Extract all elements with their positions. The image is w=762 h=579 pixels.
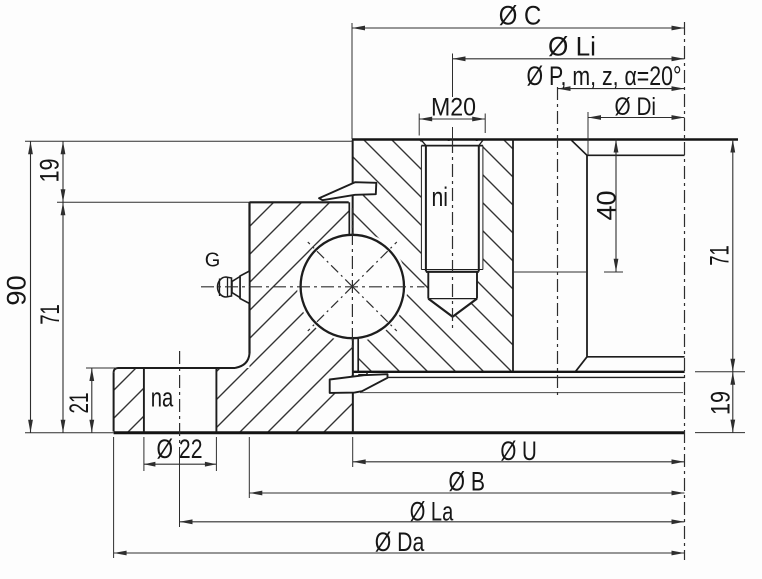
- outer ring top face: [250, 201, 349, 203]
- svg-text:Ø U: Ø U: [500, 436, 537, 466]
- outer ring fillet: [235, 354, 250, 369]
- inner ring edge below ball: [358, 339, 367, 375]
- bearing ball: [301, 235, 404, 338]
- svg-text:na: na: [151, 383, 174, 413]
- dimension Ø 22: [144, 434, 217, 471]
- dimension Ø P m z alpha=20deg: [527, 61, 685, 91]
- svg-text:ni: ni: [431, 182, 448, 212]
- dimension Ø U: [353, 436, 685, 467]
- dimension Ø Li: [453, 31, 685, 97]
- dimension M20: [419, 93, 485, 135]
- svg-text:21: 21: [64, 393, 94, 414]
- bolt hole na left wall: [143, 368, 145, 432]
- upper seal lip: [319, 182, 376, 200]
- flange corner radius: [114, 368, 118, 372]
- inner ring recess surface: [587, 154, 685, 156]
- dimension 40: [513, 140, 623, 273]
- inner ring top surface: [352, 138, 738, 141]
- dimension 19 left: [35, 141, 250, 202]
- svg-text:Ø Da: Ø Da: [375, 527, 425, 557]
- dimension Ø C: [352, 1, 685, 140]
- dimension 71 left: [35, 202, 65, 432]
- dimension 19 right: [695, 372, 745, 433]
- ball vertical center line: [351, 208, 353, 352]
- inner ring inner wall: [512, 140, 514, 372]
- svg-text:71: 71: [705, 245, 735, 266]
- label ni: [431, 182, 448, 212]
- svg-text:Ø Di: Ø Di: [615, 93, 657, 121]
- svg-text:Ø La: Ø La: [410, 496, 454, 526]
- flange left edge: [113, 372, 115, 431]
- outer ring section hatching: [114, 202, 353, 432]
- inner ring bore wall: [586, 155, 588, 356]
- threaded hole M20 (ni): [421, 140, 483, 317]
- label G: [205, 250, 221, 272]
- gear pitch line: [360, 392, 683, 394]
- svg-text:Ø B: Ø B: [449, 466, 486, 496]
- ring joint upper left line: [348, 202, 350, 234]
- white clearances: [144, 141, 483, 433]
- svg-text:G: G: [205, 250, 221, 272]
- inner ring top chamfer: [572, 140, 588, 155]
- ball diagonal center lines: [308, 242, 397, 331]
- svg-text:Ø Li: Ø Li: [548, 31, 596, 61]
- svg-text:Ø P, m, z, α=20°: Ø P, m, z, α=20°: [527, 61, 682, 91]
- svg-text:19: 19: [706, 391, 736, 415]
- gear root line: [358, 376, 685, 378]
- inner ring section hatching: [353, 140, 513, 372]
- ball horizontal center line: [201, 286, 425, 288]
- pitch circle center line: [557, 87, 559, 399]
- ring joint upper right line: [352, 140, 354, 237]
- svg-text:40: 40: [592, 191, 622, 221]
- flange top face: [118, 367, 236, 369]
- na hole center line: [179, 351, 181, 448]
- outer ring left edge: [248, 202, 250, 353]
- lower seal lip: [330, 374, 388, 393]
- inner ring bottom chamfer: [575, 357, 587, 372]
- gear tip line: [353, 371, 685, 373]
- dimension Ø Da: [114, 437, 685, 558]
- svg-text:71: 71: [35, 304, 65, 325]
- inner ring bore bottom face: [587, 356, 685, 358]
- main axis center line: [684, 22, 686, 560]
- bottom face: [114, 431, 685, 434]
- svg-text:19: 19: [35, 159, 65, 183]
- label na: [151, 383, 174, 413]
- dimension 90: [2, 141, 353, 432]
- dimension Ø La: [180, 448, 685, 527]
- ring joint lower line: [352, 337, 354, 433]
- svg-text:M20: M20: [431, 93, 476, 121]
- dimension Ø B: [249, 437, 684, 498]
- svg-text:Ø C: Ø C: [499, 1, 542, 31]
- M20 hole center line: [452, 127, 454, 330]
- grease nipple G: [218, 271, 250, 304]
- svg-text:90: 90: [2, 275, 32, 306]
- dimension 71 right: [695, 140, 745, 372]
- dimension 21: [64, 368, 117, 433]
- bolt hole na right wall: [215, 368, 217, 432]
- dimension Ø Di: [588, 93, 685, 155]
